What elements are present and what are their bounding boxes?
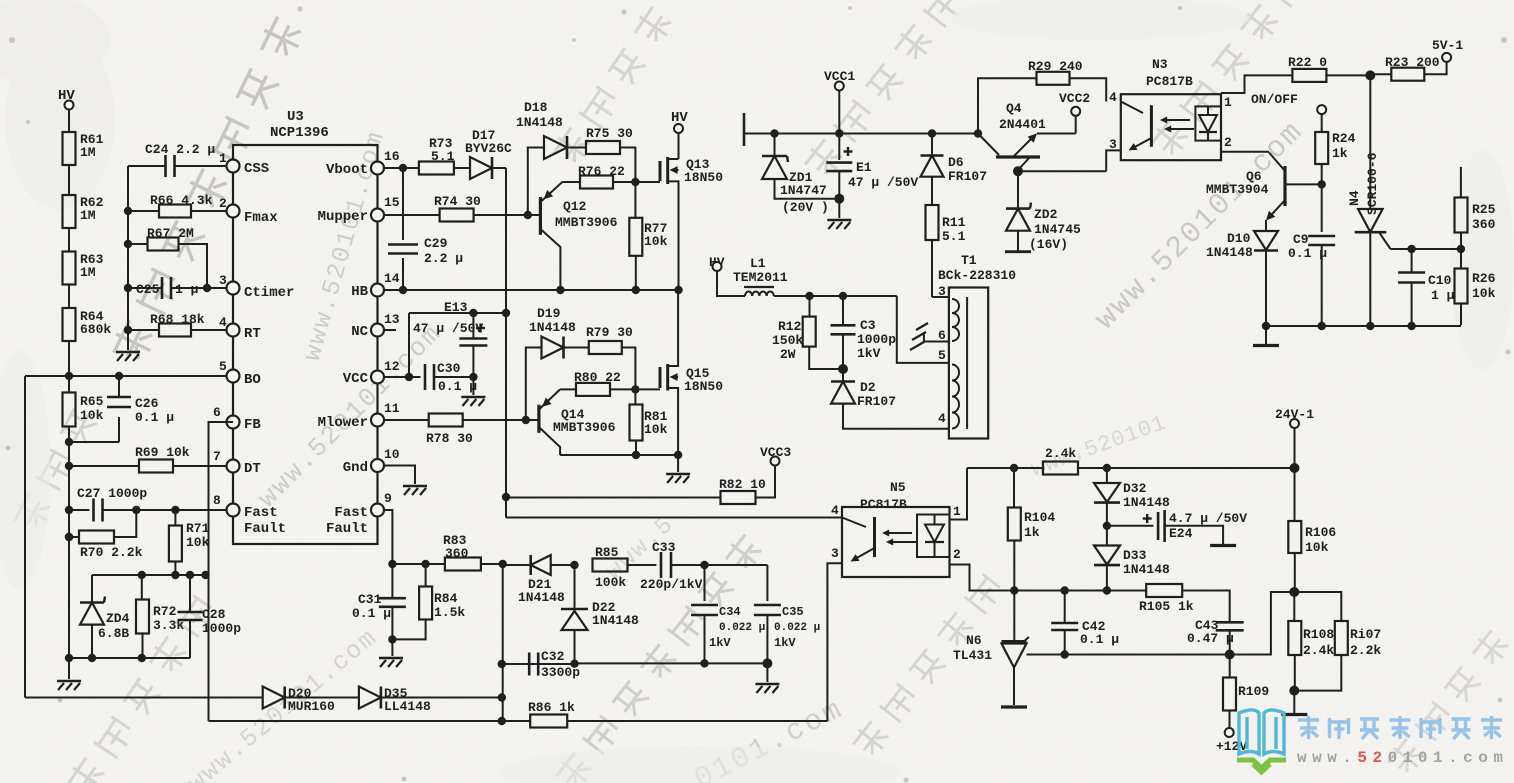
capacitor C10 1u — [1398, 245, 1455, 326]
svg-text:1k: 1k — [1024, 525, 1040, 540]
svg-text:TEM2011: TEM2011 — [733, 270, 788, 285]
diode D20 MUR160 — [25, 686, 359, 714]
svg-text:2W: 2W — [780, 347, 796, 362]
svg-text:C3: C3 — [860, 318, 876, 333]
wire Vboot row — [384, 164, 419, 172]
svg-text:C28: C28 — [202, 607, 226, 622]
watermark diagonal www center-right faint — [1028, 411, 1170, 483]
svg-text:1N4148: 1N4148 — [1123, 495, 1170, 510]
optocoupler N3 PC817B body — [1121, 57, 1221, 160]
svg-text:0.022 μ: 0.022 μ — [719, 622, 765, 634]
U3 pin 7 DT — [213, 449, 261, 477]
capacitor C43 0.47u — [1187, 618, 1244, 660]
svg-text:C27 1000p: C27 1000p — [77, 486, 147, 501]
svg-text:1 μ: 1 μ — [175, 282, 199, 297]
resistor R107 2.2k — [1294, 592, 1381, 691]
svg-text:R106: R106 — [1305, 525, 1336, 540]
resistor R61 1M — [63, 132, 104, 196]
svg-text:N3: N3 — [1152, 57, 1168, 72]
watermark diagonal www bottom-center2 — [601, 511, 680, 586]
svg-text:0.47 μ: 0.47 μ — [1187, 631, 1234, 646]
svg-text:BCk-228310: BCk-228310 — [938, 268, 1016, 283]
svg-text:R69 10k: R69 10k — [135, 445, 190, 460]
watermark diagonal cjk bottom-center — [552, 532, 765, 783]
svg-text:10k: 10k — [186, 535, 210, 550]
svg-text:Fast: Fast — [244, 505, 278, 521]
svg-text:R72: R72 — [153, 604, 177, 619]
svg-text:220p/1kV: 220p/1kV — [640, 577, 703, 592]
resistor R65 10k — [63, 376, 104, 442]
svg-text:N6: N6 — [966, 633, 982, 648]
resistor R76 22 — [562, 164, 660, 189]
wire T1 pin6 shield — [910, 323, 949, 350]
capacitor C25 1u — [128, 277, 227, 299]
svg-text:R104: R104 — [1024, 510, 1055, 525]
svg-text:DT: DT — [244, 461, 261, 477]
wire Q4 collector to N3 pin3 — [1018, 150, 1121, 171]
capacitor C31 0.1u — [352, 564, 406, 644]
svg-text:Gnd: Gnd — [343, 460, 368, 476]
svg-text:3: 3 — [219, 273, 227, 288]
svg-text:3: 3 — [1109, 137, 1117, 152]
watermark diagonal www bottom-left — [183, 623, 384, 783]
diode D6 FR107 — [921, 134, 988, 206]
svg-text:Fast: Fast — [334, 505, 368, 521]
svg-text:47 μ /50V: 47 μ /50V — [413, 321, 483, 336]
resistor R64 680k — [63, 308, 112, 376]
svg-text:D10: D10 — [1227, 231, 1251, 246]
svg-text:2.4k: 2.4k — [1045, 446, 1076, 461]
svg-text:C35: C35 — [782, 605, 804, 619]
svg-text:2.4k: 2.4k — [1303, 643, 1334, 658]
resistor R85 100k — [593, 545, 657, 590]
capacitor C32 3300p — [529, 649, 580, 680]
resistor R22 0 — [1288, 55, 1375, 82]
N3 pin2 wire — [1221, 135, 1269, 152]
wire R11 to T1 pin3 — [932, 296, 949, 298]
svg-text:100k: 100k — [595, 575, 626, 590]
resistor 2.4k — [967, 446, 1295, 475]
resistor R26 10k — [1455, 249, 1496, 325]
transistor Q13 18N50 mosfet — [660, 157, 723, 290]
svg-text:15: 15 — [384, 195, 400, 210]
wire left lower vertical — [65, 442, 73, 662]
svg-text:3300p: 3300p — [541, 665, 580, 680]
watermark diagonal www top-left 45 — [252, 318, 447, 513]
thyristor N4 SCR100-6 — [1347, 75, 1461, 326]
svg-text:L1: L1 — [750, 256, 766, 271]
N3 pin1 wire — [1221, 75, 1293, 110]
resistor R106 10k — [1288, 468, 1336, 597]
svg-text:1N4148: 1N4148 — [516, 115, 563, 130]
svg-text:(20V ): (20V ) — [782, 200, 829, 215]
svg-text:R12: R12 — [778, 319, 802, 334]
svg-text:0.1 μ: 0.1 μ — [1288, 246, 1327, 261]
capacitor E1 47u/50V — [826, 134, 918, 204]
svg-text:1N4148: 1N4148 — [518, 590, 565, 605]
resistor R75 30 — [586, 126, 635, 182]
diode D17 BYV26C — [465, 128, 512, 179]
ground below E1 — [827, 199, 851, 229]
svg-text:1kV: 1kV — [774, 636, 796, 650]
svg-text:18N50: 18N50 — [684, 379, 723, 394]
zener ZD1 1N4747 — [762, 129, 839, 215]
wire L1 row to T1 pin5 — [897, 296, 949, 363]
svg-text:FB: FB — [244, 417, 261, 433]
svg-text:TL431: TL431 — [953, 648, 992, 663]
svg-text:D6: D6 — [948, 155, 964, 170]
capacitor C30 0.1u — [425, 361, 478, 394]
svg-text:1N4745: 1N4745 — [1034, 222, 1081, 237]
resistor R12 150k 2W — [772, 296, 843, 369]
svg-text:Vboot: Vboot — [326, 162, 368, 178]
svg-text:5.1: 5.1 — [942, 229, 966, 244]
svg-text:Q4: Q4 — [1006, 101, 1022, 116]
svg-text:R78 30: R78 30 — [426, 431, 473, 446]
svg-text:1kV: 1kV — [857, 346, 881, 361]
watermark diagonal cjk top-center — [801, 0, 966, 182]
U3 pin 6 FB — [213, 405, 261, 433]
svg-text:MMBT3906: MMBT3906 — [553, 420, 616, 435]
diode D22 1N4148 — [561, 565, 639, 663]
resistor R86 1k — [209, 700, 828, 728]
svg-text:2.2k: 2.2k — [1350, 643, 1381, 658]
svg-text:R108: R108 — [1303, 627, 1334, 642]
svg-text:10: 10 — [384, 447, 400, 462]
svg-text:12: 12 — [384, 359, 400, 374]
terminal VCC1 — [824, 69, 855, 134]
svg-text:10k: 10k — [644, 422, 668, 437]
svg-text:U3: U3 — [287, 109, 304, 125]
svg-text:R25: R25 — [1472, 202, 1496, 217]
svg-text:ZD2: ZD2 — [1034, 207, 1058, 222]
U3 pin 3 Ctimer — [219, 273, 294, 301]
resistor R25 360 — [1455, 167, 1496, 253]
svg-text:6.8B: 6.8B — [98, 626, 129, 641]
wire TL431 row — [1027, 654, 1271, 656]
svg-text:PC817B: PC817B — [860, 497, 907, 512]
svg-text:150k: 150k — [772, 333, 803, 348]
wire R83 row left — [388, 560, 444, 568]
svg-text:2N4401: 2N4401 — [999, 117, 1046, 132]
diode D35 LL4148 — [359, 686, 502, 714]
capacitor C42 0.1u — [1051, 586, 1119, 658]
svg-text:1: 1 — [953, 504, 961, 519]
svg-text:D33: D33 — [1123, 548, 1147, 563]
N5 pin1 wire — [950, 468, 968, 520]
svg-text:R65: R65 — [80, 394, 104, 409]
ground pin10 Gnd — [384, 466, 427, 496]
wire to N5 pin4 — [506, 517, 842, 519]
zener ZD2 1N4745 — [1005, 166, 1081, 252]
ground left lower — [57, 658, 81, 690]
svg-text:Mupper: Mupper — [318, 209, 368, 225]
transistor Q4 2N4401 — [974, 101, 1046, 171]
resistor R68 18k — [128, 312, 227, 337]
svg-text:4: 4 — [1109, 90, 1117, 105]
resistor R69 10k — [69, 445, 227, 473]
svg-text:1M: 1M — [80, 145, 96, 160]
svg-text:(16V): (16V) — [1029, 237, 1068, 252]
svg-text:C10: C10 — [1428, 273, 1452, 288]
svg-text:LL4148: LL4148 — [384, 699, 431, 714]
svg-text:2.2 μ: 2.2 μ — [424, 251, 463, 266]
transistor Q12 MMBT3906 — [540, 182, 617, 290]
svg-text:0.022 μ: 0.022 μ — [774, 622, 820, 634]
svg-text:D18: D18 — [524, 100, 548, 115]
svg-text:R79 30: R79 30 — [586, 325, 633, 340]
N5 pin2 wire — [950, 547, 1015, 591]
watermark diagonal cjk right-mid — [1384, 627, 1512, 778]
svg-text:360: 360 — [1472, 217, 1496, 232]
resistor R80 22 — [560, 370, 660, 396]
wire vertical x502 — [498, 564, 506, 721]
diode D21 1N4148 — [503, 555, 579, 605]
ground below C31 — [379, 639, 403, 667]
diode D18 1N4148 — [516, 100, 586, 215]
wire upper dots row y575 — [92, 571, 210, 579]
svg-text:R82 10: R82 10 — [719, 477, 766, 492]
svg-text:360: 360 — [445, 546, 469, 561]
svg-text:C34: C34 — [719, 605, 741, 619]
wire pin9 down to R83 row — [384, 510, 392, 564]
U3 pin 13 NC — [351, 312, 400, 340]
svg-text:BYV26C: BYV26C — [465, 141, 512, 156]
svg-text:MUR160: MUR160 — [288, 699, 335, 714]
svg-text:3: 3 — [831, 546, 839, 561]
svg-text:BO: BO — [244, 372, 261, 388]
resistor R11 5.1 — [926, 205, 966, 297]
svg-text:R70 2.2k: R70 2.2k — [80, 545, 143, 560]
capacitor C26 0.1u — [107, 376, 174, 442]
U3 pin 8 Fast Fault — [213, 493, 286, 537]
svg-text:R105 1k: R105 1k — [1139, 599, 1194, 614]
resistor R77 10k — [629, 182, 667, 290]
svg-text:E13: E13 — [444, 300, 468, 315]
N5 pin4 label — [831, 503, 839, 518]
capacitor C28 1000p — [178, 575, 242, 658]
svg-text:FR107: FR107 — [857, 394, 896, 409]
svg-text:1.5k: 1.5k — [434, 605, 465, 620]
svg-text:1k: 1k — [1332, 146, 1348, 161]
svg-text:R67 2M: R67 2M — [147, 226, 194, 241]
N3 pin3 label — [1109, 137, 1117, 152]
capacitor C24 2.2u — [128, 142, 227, 177]
inductor L1 TEM2011 — [733, 256, 897, 300]
U3 pin 4 RT — [219, 315, 261, 342]
svg-text:1N4148: 1N4148 — [529, 320, 576, 335]
resistor R79 30 — [586, 325, 635, 389]
svg-text:PC817B: PC817B — [1146, 74, 1193, 89]
capacitor C33 220p/1kV — [640, 540, 767, 592]
wire left outer vertical — [24, 376, 26, 698]
svg-text:5: 5 — [219, 359, 227, 374]
transistor Q6 MMBT3904 — [1206, 153, 1322, 221]
wire C32 row — [502, 658, 773, 668]
ground below E13 — [461, 377, 485, 406]
wire R65-C26 bottom junction — [65, 438, 119, 446]
svg-text:11: 11 — [384, 401, 400, 416]
svg-text:C33: C33 — [652, 540, 676, 555]
svg-text:E24: E24 — [1169, 526, 1193, 541]
svg-text:R74 30: R74 30 — [434, 194, 481, 209]
svg-text:10k: 10k — [80, 408, 104, 423]
wire FB vertical to R86 — [209, 422, 234, 721]
svg-text:18N50: 18N50 — [684, 170, 723, 185]
N5 pin3 label — [827, 546, 842, 721]
resistor R67 2M — [128, 226, 207, 288]
svg-text:14: 14 — [384, 271, 400, 286]
svg-text:R109: R109 — [1238, 684, 1269, 699]
dot VCC row junctions — [384, 373, 421, 381]
N3 pin4 label — [1109, 90, 1117, 105]
svg-text:Fault: Fault — [244, 521, 286, 537]
resistor R78 30 — [384, 414, 539, 447]
svg-text:1: 1 — [1224, 95, 1232, 110]
svg-text:5: 5 — [938, 348, 946, 363]
svg-text:R76 22: R76 22 — [578, 164, 625, 179]
resistor R72 3.3k — [136, 575, 184, 658]
diode D33 1N4148 — [1094, 526, 1170, 595]
svg-text:5V-1: 5V-1 — [1432, 38, 1463, 53]
svg-text:1M: 1M — [80, 265, 96, 280]
svg-text:1kV: 1kV — [709, 636, 731, 650]
resistor R104 1k — [1008, 468, 1056, 595]
svg-text:C29: C29 — [424, 236, 448, 251]
svg-text:SCR100-6: SCR100-6 — [1365, 152, 1380, 215]
terminal +12V — [1216, 728, 1247, 754]
zener ZD4 6.8B — [80, 575, 130, 658]
resistor R84 1.5k — [392, 564, 465, 639]
svg-text:MMBT3906: MMBT3906 — [555, 215, 618, 230]
svg-text:0.1 μ: 0.1 μ — [1080, 632, 1119, 647]
svg-text:1N4148: 1N4148 — [592, 613, 639, 628]
svg-text:RT: RT — [244, 326, 261, 342]
wire left bus vertical — [124, 166, 132, 350]
svg-text:1N4148: 1N4148 — [1206, 245, 1253, 260]
svg-text:C9: C9 — [1293, 232, 1309, 247]
resistor R70 2.2k — [65, 510, 143, 560]
optocoupler N5 PC817B body — [842, 480, 950, 577]
watermark diagonal cjk center-right — [849, 573, 1005, 761]
svg-text:1N4148: 1N4148 — [1123, 562, 1170, 577]
svg-text:C24 2.2 μ: C24 2.2 μ — [145, 142, 215, 157]
ground R108 bottom — [1281, 691, 1307, 715]
svg-text:www.520101.com: www.520101.com — [1297, 749, 1508, 767]
diode D19 1N4148 — [526, 306, 589, 420]
svg-text:2: 2 — [219, 196, 227, 211]
svg-text:R22 0: R22 0 — [1288, 55, 1327, 70]
wire Q14 bottom row — [560, 451, 682, 459]
watermark diagonal cjk top-center2 — [549, 4, 676, 170]
svg-text:10k: 10k — [1472, 286, 1496, 301]
ground Q14 row — [666, 455, 690, 483]
svg-text:R11: R11 — [942, 215, 966, 230]
op-amp U3 NCP1396 body — [233, 109, 378, 544]
svg-text:D32: D32 — [1123, 481, 1147, 496]
svg-text:C26: C26 — [135, 396, 159, 411]
svg-text:NC: NC — [351, 324, 368, 340]
svg-text:7: 7 — [213, 449, 221, 464]
diode D2 FR107 — [831, 369, 949, 429]
svg-text:1M: 1M — [80, 208, 96, 223]
svg-text:6: 6 — [213, 405, 221, 420]
svg-text:1000p: 1000p — [857, 332, 896, 347]
svg-text:4: 4 — [219, 315, 227, 330]
svg-text:R29 240: R29 240 — [1028, 59, 1083, 74]
resistor R63 1M — [63, 252, 104, 310]
svg-text:R71: R71 — [186, 521, 210, 536]
watermark diagonal cjk bottom-left — [64, 594, 218, 783]
resistor R83 360 — [443, 533, 507, 571]
svg-text:C30: C30 — [437, 361, 461, 376]
terminal 24V-1 — [1275, 407, 1314, 473]
transistor Q14 MMBT3906 — [539, 389, 616, 455]
capacitor C34 0.022u 1kV — [691, 565, 765, 663]
watermark diagonal cjk top-left — [108, 14, 306, 367]
svg-text:C31: C31 — [358, 592, 382, 607]
resistor R108 2.4k — [1288, 592, 1334, 696]
svg-text:FR107: FR107 — [948, 169, 987, 184]
svg-text:MMBT3904: MMBT3904 — [1206, 182, 1269, 197]
wire VCC vertical x505 — [502, 168, 510, 518]
U3 pin 15 Mupper — [318, 195, 400, 225]
capacitor E13 47u/50V — [409, 300, 506, 377]
svg-text:HB: HB — [351, 284, 368, 300]
svg-text:10k: 10k — [644, 234, 668, 249]
terminal HV (L1) — [709, 255, 745, 296]
ground below C35 — [755, 663, 779, 693]
diode D10 1N4148 — [1206, 220, 1278, 326]
svg-text:1N4747: 1N4747 — [780, 183, 827, 198]
svg-text:9: 9 — [384, 491, 392, 506]
svg-text:N5: N5 — [890, 480, 906, 495]
svg-text:4.7 μ /50V: 4.7 μ /50V — [1169, 511, 1247, 526]
wire 5V bottom row — [1262, 322, 1461, 330]
svg-text:Ctimer: Ctimer — [244, 285, 294, 301]
capacitor C9 0.1u — [1288, 232, 1335, 326]
svg-text:N4: N4 — [1347, 190, 1362, 206]
svg-text:R26: R26 — [1472, 271, 1496, 286]
U3 pin 10 Gnd — [343, 447, 400, 476]
svg-text:Mlower: Mlower — [318, 415, 368, 431]
svg-text:Fault: Fault — [326, 521, 368, 537]
terminal ON/OFF — [1251, 92, 1326, 132]
svg-text:C32: C32 — [541, 649, 565, 664]
svg-text:D19: D19 — [537, 306, 561, 321]
diode D32 1N4148 — [1094, 468, 1170, 530]
terminal VCC2 — [1037, 91, 1090, 134]
svg-text:E1: E1 — [856, 160, 872, 175]
svg-text:8: 8 — [213, 493, 221, 508]
svg-text:D2: D2 — [860, 380, 876, 395]
rail end bar — [744, 113, 775, 146]
ground D10 — [1253, 326, 1279, 346]
wire C43 row to R106 node — [1230, 592, 1295, 655]
svg-text:VCC2: VCC2 — [1059, 91, 1090, 106]
watermark diagonal cjk middle-left edge — [10, 406, 99, 535]
wire rail — [775, 129, 979, 137]
U3 pin 16 Vboot — [326, 149, 400, 178]
watermark diagonal www right-middle — [1089, 115, 1311, 337]
U3 pin 5 BO — [219, 359, 261, 388]
resistor R71 10k — [169, 510, 210, 575]
U3 pin 14 HB — [351, 271, 400, 300]
resistor R24 1k — [1315, 131, 1355, 232]
terminal VCC3 — [756, 445, 791, 498]
svg-text:R24: R24 — [1332, 131, 1356, 146]
capacitor C29 2.2u — [388, 168, 463, 290]
